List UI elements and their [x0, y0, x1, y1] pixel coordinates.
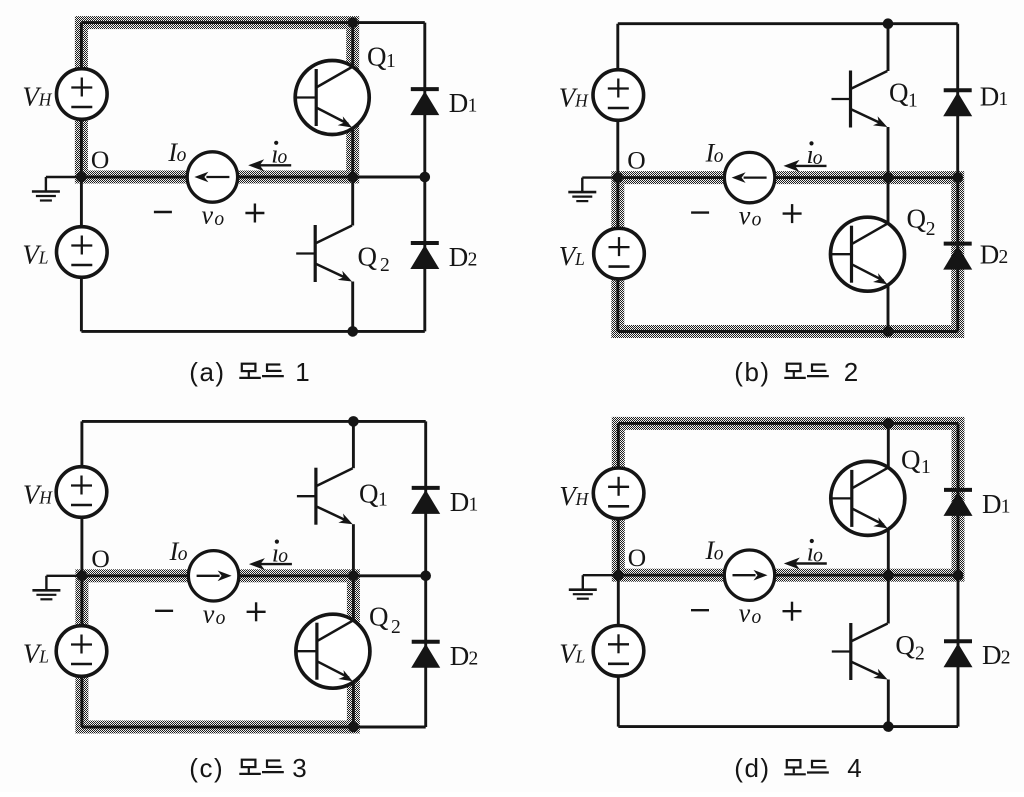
svg-text:2: 2 [380, 255, 390, 276]
svg-text:Q: Q [889, 78, 909, 108]
svg-text:O: O [627, 146, 645, 175]
svg-text:2: 2 [468, 250, 478, 271]
svg-text:O: O [628, 543, 646, 572]
svg-text:1: 1 [921, 457, 931, 478]
svg-text:L: L [574, 249, 585, 269]
svg-text:(c): (c) [189, 753, 224, 783]
svg-text:4: 4 [847, 753, 861, 783]
svg-text:1: 1 [999, 89, 1009, 110]
svg-text:H: H [574, 91, 589, 111]
svg-text:v: v [739, 201, 751, 230]
svg-text:2: 2 [844, 357, 858, 387]
svg-text:o: o [714, 543, 724, 564]
svg-text:2: 2 [1001, 648, 1011, 669]
svg-text:v: v [203, 599, 215, 628]
svg-text:1: 1 [378, 490, 388, 511]
svg-text:L: L [575, 646, 586, 666]
svg-text:2: 2 [999, 247, 1009, 268]
svg-text:Q: Q [907, 204, 927, 234]
svg-text:D: D [982, 489, 1002, 519]
svg-text:Q: Q [895, 630, 915, 660]
svg-text:D: D [982, 640, 1002, 670]
svg-text:1: 1 [1001, 496, 1011, 517]
svg-text:2: 2 [391, 617, 401, 638]
svg-text:D: D [449, 88, 469, 118]
svg-text:Q: Q [359, 479, 379, 509]
svg-text:D: D [450, 487, 470, 517]
svg-text:o: o [752, 210, 762, 231]
svg-text:3: 3 [292, 753, 306, 783]
svg-text:(b): (b) [734, 357, 770, 387]
svg-text:(d): (d) [734, 753, 770, 783]
svg-text:1: 1 [469, 494, 479, 515]
svg-text:Q: Q [367, 42, 387, 72]
svg-text:H: H [575, 489, 590, 509]
svg-text:o: o [714, 146, 724, 167]
svg-text:2: 2 [469, 648, 479, 669]
svg-text:o: o [216, 608, 226, 629]
svg-text:D: D [450, 641, 470, 671]
svg-text:H: H [38, 90, 53, 110]
svg-text:2: 2 [926, 219, 936, 240]
svg-text:1: 1 [468, 96, 478, 117]
svg-text:O: O [91, 544, 109, 573]
svg-text:v: v [202, 201, 214, 230]
svg-text:D: D [449, 242, 469, 272]
svg-text:O: O [91, 145, 109, 174]
svg-text:L: L [38, 248, 49, 268]
svg-text:(a): (a) [189, 357, 225, 387]
svg-text:1: 1 [386, 51, 396, 72]
svg-text:v: v [739, 599, 751, 628]
svg-text:1: 1 [908, 91, 918, 112]
svg-text:o: o [752, 607, 762, 628]
svg-text:o: o [214, 209, 224, 230]
svg-text:o: o [177, 145, 187, 166]
svg-text:1: 1 [295, 357, 309, 387]
svg-text:H: H [38, 488, 53, 508]
svg-text:D: D [980, 82, 1000, 112]
svg-text:Q: Q [358, 242, 378, 272]
svg-text:o: o [178, 544, 188, 565]
svg-text:Q: Q [369, 602, 389, 632]
svg-text:D: D [980, 240, 1000, 270]
svg-text:2: 2 [915, 644, 925, 665]
svg-text:L: L [38, 647, 49, 667]
svg-text:Q: Q [901, 445, 921, 475]
